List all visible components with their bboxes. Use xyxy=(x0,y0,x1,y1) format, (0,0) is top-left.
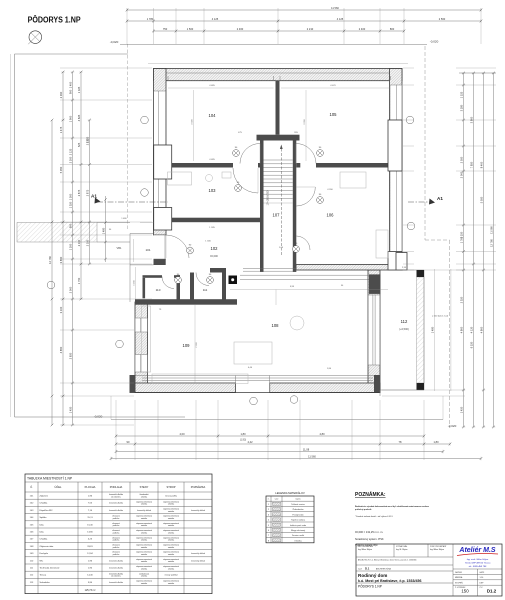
svg-text:keramický obklad: keramický obklad xyxy=(191,553,205,555)
svg-text:Chodba: Chodba xyxy=(40,503,48,505)
svg-text:±0,000: ±0,000 xyxy=(210,255,218,258)
svg-text:800: 800 xyxy=(68,223,72,228)
svg-text:PODLAHA: PODLAHA xyxy=(110,485,123,489)
svg-text:podlaha: podlaha xyxy=(113,540,119,542)
svg-text:8 400: 8 400 xyxy=(479,161,483,168)
svg-text:104: 104 xyxy=(209,113,217,118)
svg-text:Chodba: Chodba xyxy=(40,539,48,541)
svg-text:4,00: 4,00 xyxy=(179,432,185,436)
svg-text:-0,020: -0,020 xyxy=(430,40,439,44)
svg-text:±0,000 = 131,25 m n. m.: ±0,000 = 131,25 m n. m. xyxy=(355,530,383,534)
svg-text:2 000: 2 000 xyxy=(68,286,72,293)
svg-text:15,11: 15,11 xyxy=(87,517,93,519)
svg-text:1 480: 1 480 xyxy=(121,218,127,220)
svg-text:1,80: 1,80 xyxy=(240,432,246,436)
svg-text:11 560: 11 560 xyxy=(489,226,493,234)
svg-text:Zemina rastlá: Zemina rastlá xyxy=(292,534,305,537)
svg-text:3 300: 3 300 xyxy=(191,118,193,124)
svg-text:omietka: omietka xyxy=(141,582,147,585)
svg-text:keramický obklad: keramický obklad xyxy=(191,560,205,562)
svg-text:čierový podhľad: čierový podhľad xyxy=(165,575,178,577)
svg-text:4 125: 4 125 xyxy=(212,17,219,21)
svg-text:príslušný profesík.: príslušný profesík. xyxy=(355,508,372,511)
svg-text:1 200: 1 200 xyxy=(68,243,72,250)
svg-text:900: 900 xyxy=(68,89,72,94)
svg-text:6 520: 6 520 xyxy=(469,341,473,348)
svg-text:(+0,500): (+0,500) xyxy=(399,328,409,331)
svg-text:omietka: omietka xyxy=(141,553,147,556)
svg-text:150: 150 xyxy=(461,588,469,593)
svg-text:2 875: 2 875 xyxy=(77,189,81,196)
svg-text:Omietka: Omietka xyxy=(294,539,302,542)
svg-text:omietka: omietka xyxy=(168,531,174,534)
svg-text:omietka: omietka xyxy=(168,503,174,506)
svg-text:MIERKA: MIERKA xyxy=(455,576,463,579)
svg-text:525: 525 xyxy=(77,142,81,147)
svg-text:4 485: 4 485 xyxy=(209,85,215,87)
svg-text:4 850: 4 850 xyxy=(59,346,63,353)
svg-text:* Farebné riešenie fasád – viď: * Farebné riešenie fasád – viď. výkres č… xyxy=(355,515,393,518)
svg-text:4 485: 4 485 xyxy=(209,159,215,161)
svg-text:A1: A1 xyxy=(91,194,97,199)
svg-text:2 390: 2 390 xyxy=(59,91,63,98)
svg-text:2 125: 2 125 xyxy=(68,148,72,155)
svg-text:Ateliér M.S: Ateliér M.S xyxy=(458,547,496,554)
svg-text:-0,020: -0,020 xyxy=(110,40,119,44)
svg-text:1 345: 1 345 xyxy=(209,227,215,229)
svg-text:LEGENDA MATERIÁLOV: LEGENDA MATERIÁLOV xyxy=(275,491,305,495)
svg-text:VB1: VB1 xyxy=(117,246,122,250)
svg-text:800: 800 xyxy=(390,27,395,31)
svg-text:časť:: časť: xyxy=(358,567,363,570)
svg-text:3 850: 3 850 xyxy=(59,256,63,263)
svg-text:PÔDORYS 1.NP: PÔDORYS 1.NP xyxy=(358,583,382,588)
svg-text:PÔDORYS 1.NP: PÔDORYS 1.NP xyxy=(28,15,82,24)
svg-text:12,84: 12,84 xyxy=(87,553,93,555)
svg-text:12 760: 12 760 xyxy=(489,238,493,246)
svg-text:omietka: omietka xyxy=(141,531,147,534)
svg-text:D.1: D.1 xyxy=(365,567,370,571)
svg-text:1:50: 1:50 xyxy=(480,577,484,579)
svg-text:Ing. M. Skýva: Ing. M. Skýva xyxy=(396,549,408,551)
svg-text:Terasa: Terasa xyxy=(40,574,47,577)
svg-text:14,40: 14,40 xyxy=(87,575,93,577)
svg-text:podlaha: podlaha xyxy=(113,518,119,520)
svg-text:omietka: omietka xyxy=(168,560,174,563)
svg-text:tel.: 0905 456 789: tel.: 0905 456 789 xyxy=(469,565,487,568)
svg-text:3 280: 3 280 xyxy=(459,104,463,111)
svg-text:Rodinný dom: Rodinný dom xyxy=(358,573,387,578)
svg-text:Tepelná izolácia: Tepelná izolácia xyxy=(291,520,306,522)
svg-text:omietka: omietka xyxy=(168,517,174,520)
svg-text:2 000: 2 000 xyxy=(459,171,463,178)
svg-text:1 400: 1 400 xyxy=(68,81,72,88)
svg-text:omietka: omietka xyxy=(168,539,174,542)
svg-text:keramická dlažba: keramická dlažba xyxy=(109,510,123,512)
svg-text:podlaha: podlaha xyxy=(113,532,119,534)
svg-text:4 120: 4 120 xyxy=(469,326,473,333)
svg-text:AKCIA: RD 29, k.ú. Most pri B: AKCIA: RD 29, k.ú. Most pri Bratislave, … xyxy=(358,558,416,561)
svg-text:110: 110 xyxy=(156,288,161,292)
svg-text:ø 100 dažď. zvod: ø 100 dažď. zvod xyxy=(432,316,449,318)
svg-text:ZODP. PROJEKTANT: ZODP. PROJEKTANT xyxy=(430,545,446,548)
svg-text:1 480: 1 480 xyxy=(431,326,435,333)
svg-text:1 350: 1 350 xyxy=(68,201,72,208)
svg-text:omietka: omietka xyxy=(141,503,147,506)
svg-text:101: 101 xyxy=(145,248,150,252)
svg-text:11 560: 11 560 xyxy=(331,6,339,10)
svg-text:WC: WC xyxy=(40,560,44,562)
svg-text:omietka: omietka xyxy=(168,524,174,527)
svg-text:2 225: 2 225 xyxy=(85,136,89,143)
svg-text:33,81: 33,81 xyxy=(87,546,93,548)
svg-text:2 875: 2 875 xyxy=(85,189,89,196)
svg-text:1 345: 1 345 xyxy=(205,241,211,243)
svg-text:STROP: STROP xyxy=(167,485,176,489)
svg-text:TABUĽKA MIESTNOSTÍ 1.NP: TABUĽKA MIESTNOSTÍ 1.NP xyxy=(27,477,73,481)
svg-text:STENY: STENY xyxy=(140,485,149,489)
svg-text:Násyp zhutnený: Násyp zhutnený xyxy=(291,529,305,532)
svg-text:4 125: 4 125 xyxy=(337,17,344,21)
svg-text:1 500: 1 500 xyxy=(187,27,194,31)
svg-text:keramická dlažba: keramická dlažba xyxy=(109,568,123,570)
svg-text:2 100: 2 100 xyxy=(85,239,89,246)
svg-text:Trieda SNP 487/12 Trnava: Trieda SNP 487/12 Trnava xyxy=(465,562,491,565)
svg-text:109: 109 xyxy=(183,343,191,348)
svg-text:12 760: 12 760 xyxy=(48,255,52,263)
svg-text:A1: A1 xyxy=(437,196,443,201)
svg-text:7 850: 7 850 xyxy=(469,161,473,168)
svg-text:106: 106 xyxy=(327,213,335,218)
svg-text:Zádverie: Zádverie xyxy=(40,495,49,498)
svg-text:1 480: 1 480 xyxy=(133,280,135,286)
svg-text:POZNÁMKA: POZNÁMKA xyxy=(191,485,206,489)
svg-text:Tehlové murivo: Tehlové murivo xyxy=(291,504,305,506)
svg-text:13,80: 13,80 xyxy=(87,532,93,534)
svg-text:keramická dlažba: keramická dlažba xyxy=(109,560,123,562)
svg-text:11,08: 11,08 xyxy=(303,447,310,451)
svg-text:omietka: omietka xyxy=(141,539,147,542)
svg-text:750: 750 xyxy=(163,27,168,31)
svg-text:112: 112 xyxy=(401,319,408,324)
svg-text:2 050: 2 050 xyxy=(459,156,463,163)
svg-text:Železobetón: Železobetón xyxy=(292,508,303,511)
svg-text:omietka: omietka xyxy=(141,546,147,549)
svg-text:Ing. Milan Skýva: Ing. Milan Skýva xyxy=(358,549,373,551)
svg-text:1 025: 1 025 xyxy=(77,86,81,93)
svg-text:1 780: 1 780 xyxy=(147,17,154,21)
svg-text:do exteriéru: do exteriéru xyxy=(111,495,121,498)
svg-text:Izolácia proti vode: Izolácia proti vode xyxy=(290,524,307,527)
svg-text:2 350: 2 350 xyxy=(459,296,463,303)
svg-text:omietka: omietka xyxy=(141,575,147,578)
svg-text:2 460: 2 460 xyxy=(237,27,244,31)
svg-text:2 400: 2 400 xyxy=(359,27,366,31)
svg-text:Ing. Milan Skýva: Ing. Milan Skýva xyxy=(430,549,445,551)
svg-text:omietka: omietka xyxy=(168,510,174,513)
svg-text:1 450: 1 450 xyxy=(68,406,72,413)
svg-text:4 825: 4 825 xyxy=(77,114,81,121)
svg-text:4,42: 4,42 xyxy=(247,440,253,444)
svg-text:15,40: 15,40 xyxy=(87,524,93,526)
svg-text:107: 107 xyxy=(273,213,281,218)
svg-text:1 450: 1 450 xyxy=(459,406,463,413)
svg-text:POZNÁMKA:: POZNÁMKA: xyxy=(355,491,386,498)
svg-text:VED. PROJEKTANT: VED. PROJEKTANT xyxy=(358,545,373,548)
svg-text:4 800: 4 800 xyxy=(459,326,463,333)
svg-text:2 210: 2 210 xyxy=(307,27,314,31)
svg-text:-0,020: -0,020 xyxy=(94,415,103,419)
svg-text:keramická dlažba: keramická dlažba xyxy=(109,582,123,584)
svg-text:Technická miestnosť: Technická miestnosť xyxy=(40,567,60,570)
svg-text:2 200: 2 200 xyxy=(68,156,72,163)
svg-text:Súradnicový systém: JTSK: Súradnicový systém: JTSK xyxy=(355,538,384,541)
svg-text:keramická dlažba: keramická dlažba xyxy=(109,503,123,505)
svg-text:3 300: 3 300 xyxy=(304,118,306,124)
svg-text:Realizačná a výrobná dokumentá: Realizačná a výrobná dokumentácia musí b… xyxy=(355,505,430,508)
svg-text:125,73 m²: 125,73 m² xyxy=(85,589,96,592)
svg-text:Kuchyňa: Kuchyňa xyxy=(40,553,49,555)
svg-text:vzor: vzor xyxy=(275,499,279,501)
svg-text:4,80: 4,80 xyxy=(319,432,325,436)
svg-text:omietka: omietka xyxy=(141,524,147,527)
svg-text:-0,020: -0,020 xyxy=(448,424,457,428)
svg-text:108: 108 xyxy=(272,323,280,328)
svg-text:4 200: 4 200 xyxy=(327,189,333,191)
svg-text:4 470: 4 470 xyxy=(330,85,336,87)
svg-text:omietka: omietka xyxy=(168,546,174,549)
svg-text:do exteriéru: do exteriéru xyxy=(111,575,121,578)
svg-text:keramický obklad: keramický obklad xyxy=(137,510,151,512)
svg-text:102: 102 xyxy=(211,246,219,251)
svg-text:111: 111 xyxy=(203,288,208,292)
svg-text:4 800: 4 800 xyxy=(479,326,483,333)
svg-text:2 900: 2 900 xyxy=(196,341,198,347)
svg-text:1 480: 1 480 xyxy=(101,227,105,234)
svg-text:1 475: 1 475 xyxy=(59,126,63,133)
svg-text:2 560: 2 560 xyxy=(439,17,446,21)
svg-text:17×180,6/250: 17×180,6/250 xyxy=(267,190,270,205)
svg-text:5 050: 5 050 xyxy=(59,166,63,173)
svg-text:1 250: 1 250 xyxy=(459,231,463,238)
svg-text:omietka: omietka xyxy=(141,567,147,570)
svg-text:Obývacia izba: Obývacia izba xyxy=(40,546,55,548)
svg-text:1 525: 1 525 xyxy=(459,91,463,98)
svg-text:podlaha: podlaha xyxy=(113,547,119,549)
svg-text:keramický obklad: keramický obklad xyxy=(191,510,205,512)
svg-text:(1,93): (1,93) xyxy=(240,439,246,442)
svg-text:k.ú. Most pri Bratislave, č.p.: k.ú. Most pri Bratislave, č.p. 1533/456 xyxy=(358,579,422,583)
svg-text:DÁTUM: DÁTUM xyxy=(455,571,462,574)
svg-text:omietka: omietka xyxy=(141,560,147,563)
svg-text:2 100: 2 100 xyxy=(77,239,81,246)
svg-text:04/23: 04/23 xyxy=(480,572,485,574)
svg-text:STUPEŇ: STUPEŇ xyxy=(455,582,463,585)
svg-text:VYPRACOVAL: VYPRACOVAL xyxy=(396,545,407,548)
svg-text:Ing. arch. Milan Skýva: Ing. arch. Milan Skýva xyxy=(467,559,489,561)
svg-text:1,80: 1,80 xyxy=(433,440,439,444)
svg-text:omietka: omietka xyxy=(168,553,174,556)
svg-text:1 750: 1 750 xyxy=(77,277,81,284)
svg-text:Spálňa: Spálňa xyxy=(40,517,48,519)
svg-text:Schodisko: Schodisko xyxy=(40,582,51,584)
svg-text:Prostý betón: Prostý betón xyxy=(292,513,303,516)
svg-text:11 560: 11 560 xyxy=(308,454,316,458)
svg-text:omietka: omietka xyxy=(141,517,147,520)
svg-text:1 900: 1 900 xyxy=(68,115,72,122)
svg-text:105: 105 xyxy=(330,112,338,117)
svg-text:103: 103 xyxy=(209,188,217,193)
svg-text:ARCHITEKTÚRA: ARCHITEKTÚRA xyxy=(376,567,391,570)
svg-text:omietka: omietka xyxy=(141,495,147,498)
svg-text:5 050: 5 050 xyxy=(479,196,483,203)
svg-text:3 100: 3 100 xyxy=(59,306,63,313)
svg-text:Kúpeľňa+WC: Kúpeľňa+WC xyxy=(40,510,54,512)
svg-text:omietka: omietka xyxy=(168,567,174,570)
svg-text:3 800: 3 800 xyxy=(469,116,473,123)
svg-text:2 650: 2 650 xyxy=(68,352,72,359)
svg-text:názov: názov xyxy=(295,499,300,501)
svg-text:podlaha: podlaha xyxy=(113,525,119,527)
svg-text:Č.V.: Č.V. xyxy=(480,586,484,589)
svg-text:čierová podhľa: čierová podhľa xyxy=(165,496,177,498)
svg-text:PLOCHA: PLOCHA xyxy=(85,485,96,489)
svg-text:D1.2: D1.2 xyxy=(487,588,497,593)
svg-text:1 500: 1 500 xyxy=(68,193,72,200)
svg-text:podlaha: podlaha xyxy=(113,554,119,556)
svg-text:omietka: omietka xyxy=(168,582,174,585)
